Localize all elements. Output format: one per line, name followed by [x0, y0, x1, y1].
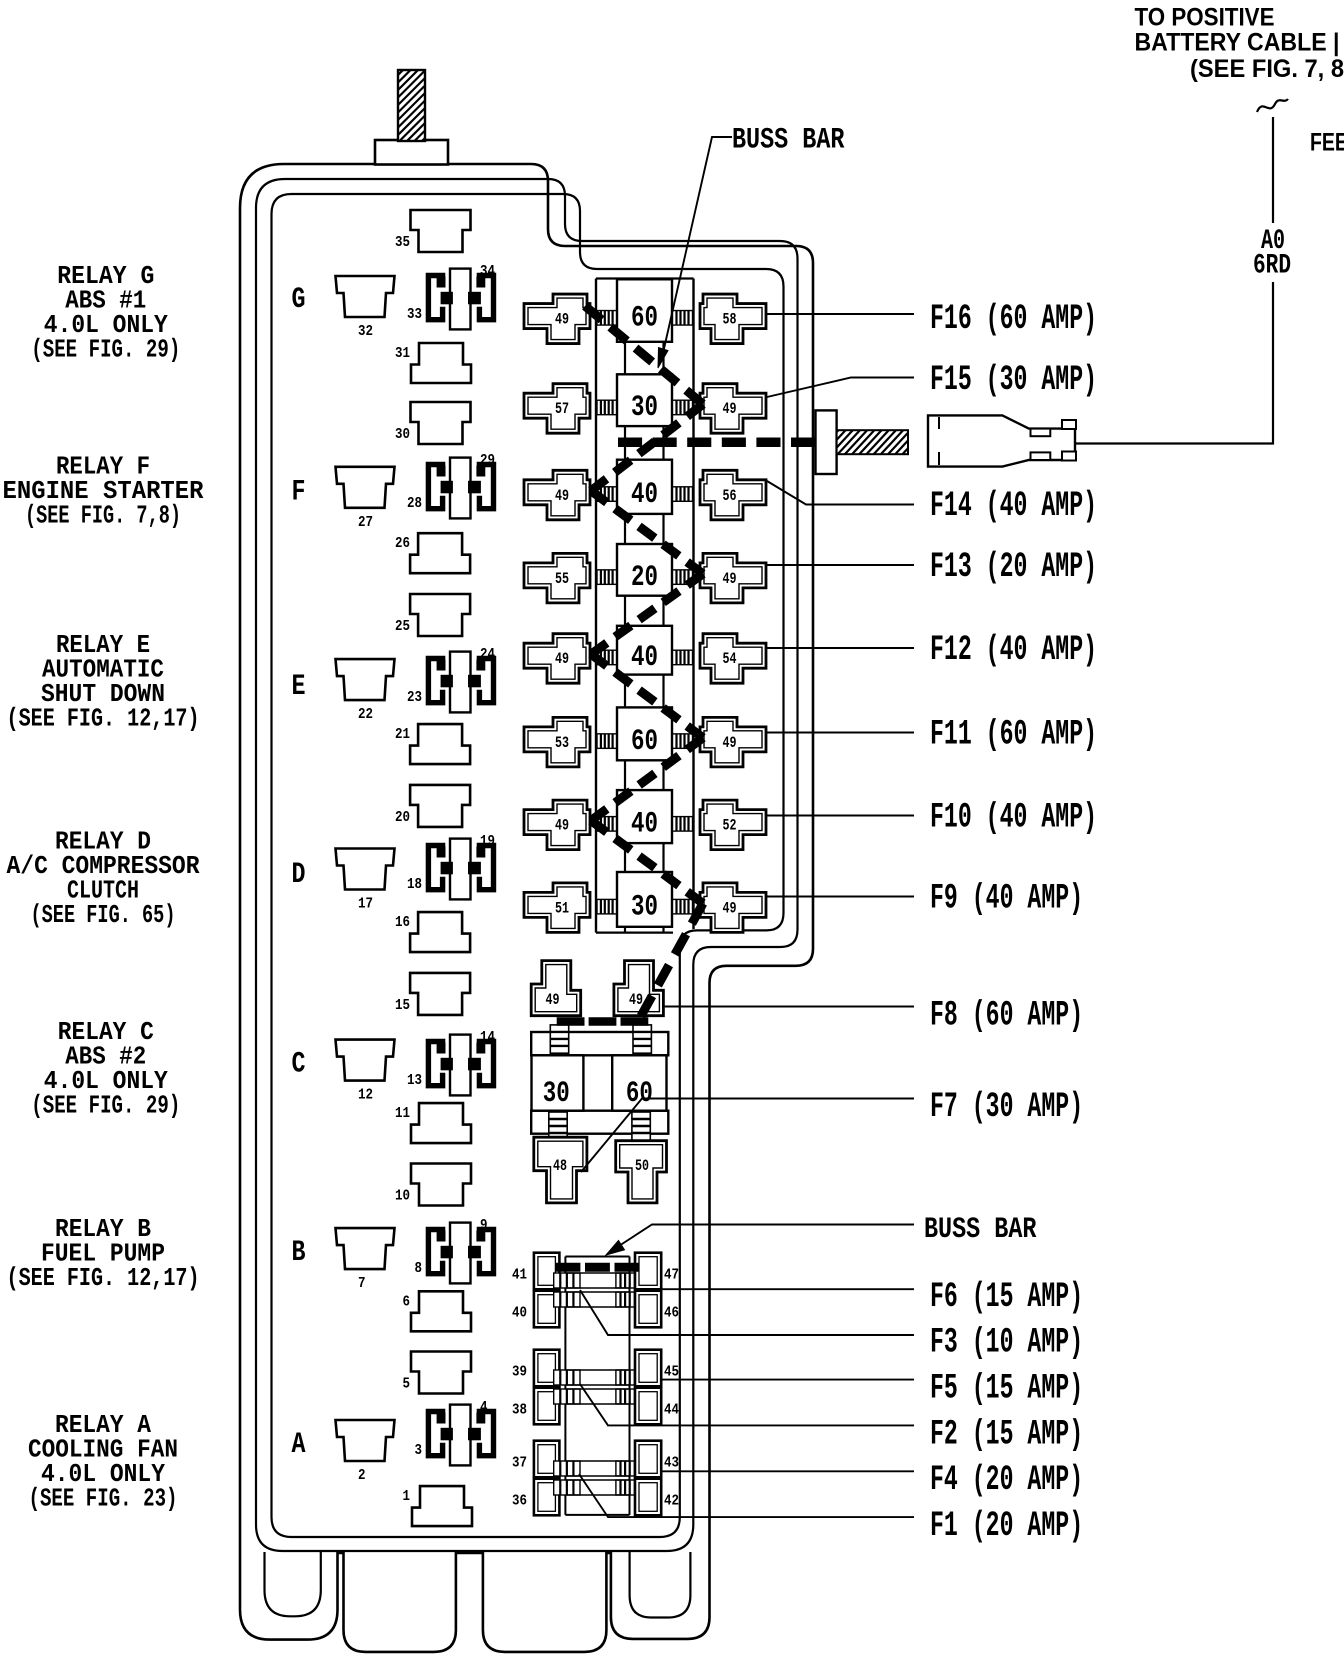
svg-text:40: 40 — [631, 478, 658, 512]
svg-text:F3 (10 AMP): F3 (10 AMP) — [930, 1323, 1083, 1363]
F8 leader line — [663, 1006, 914, 1008]
fuse F14 left crimp — [597, 487, 617, 502]
F11 leader line — [766, 732, 914, 734]
fuse F2 terminals 38/44 — [512, 1388, 679, 1425]
fuse F12 right terminal 54 — [700, 634, 766, 684]
svg-text:26: 26 — [395, 535, 410, 552]
bottom fuse block frame — [565, 1257, 629, 1515]
svg-text:11: 11 — [395, 1105, 410, 1122]
fuse F15 element (30 amp) — [617, 374, 672, 426]
relay G socket (trapezoid terminal 32) — [336, 276, 395, 340]
fuse F8 label — [930, 996, 1083, 1036]
relay B letter — [292, 1236, 306, 1270]
fuse F16 label — [930, 299, 1097, 339]
svg-text:54: 54 — [723, 650, 737, 668]
svg-text:B: B — [292, 1236, 306, 1270]
svg-text:F6 (15 AMP): F6 (15 AMP) — [930, 1277, 1083, 1317]
svg-text:23: 23 — [407, 689, 422, 706]
F15 leader line — [767, 378, 914, 398]
cavity terminal 35 — [395, 210, 471, 252]
svg-text:44: 44 — [664, 1402, 679, 1419]
svg-text:(SEE FIG. 12,17): (SEE FIG. 12,17) — [7, 704, 200, 734]
fuse F10 right crimp — [673, 817, 693, 832]
svg-text:8: 8 — [415, 1260, 423, 1277]
svg-text:45: 45 — [664, 1364, 679, 1381]
fuse F11 left terminal 53 — [524, 717, 590, 767]
cavity terminal 30 — [395, 402, 471, 444]
fuse F11 right terminal 49 — [700, 717, 766, 767]
svg-text:BATTERY CABLE |: BATTERY CABLE | — [1135, 29, 1340, 57]
svg-text:24: 24 — [480, 646, 495, 663]
fuse F10 left terminal 49 — [524, 800, 590, 850]
F13 leader line — [766, 564, 914, 566]
relay C coil terminals (H symbol, pins 13/14) — [407, 1029, 495, 1096]
svg-text:20: 20 — [395, 809, 410, 826]
fuse F7 element (30 amp) — [532, 1055, 584, 1111]
svg-text:(SEE FIG. 12,17): (SEE FIG. 12,17) — [7, 1263, 200, 1293]
F5 leader line — [662, 1379, 915, 1381]
fuse F15 right terminal 49 — [700, 384, 766, 434]
svg-text:TO POSITIVE: TO POSITIVE — [1135, 4, 1275, 32]
fuse F10 label — [930, 797, 1097, 837]
buss bar top label — [732, 124, 845, 158]
F7/F8 block bottom bar — [531, 1111, 668, 1134]
relay A letter — [292, 1428, 306, 1462]
fuse F15 left crimp — [597, 400, 617, 415]
relay C socket (trapezoid terminal 12) — [336, 1040, 395, 1104]
svg-text:36: 36 — [512, 1493, 527, 1510]
fuse F3 label — [930, 1323, 1083, 1363]
fuse F14 left terminal 49 — [524, 470, 590, 520]
svg-text:5: 5 — [403, 1376, 411, 1393]
svg-text:28: 28 — [407, 495, 422, 512]
relay D letter — [292, 858, 306, 892]
svg-text:38: 38 — [512, 1402, 527, 1419]
svg-text:22: 22 — [358, 706, 373, 723]
svg-text:13: 13 — [407, 1072, 422, 1089]
svg-text:F14 (40 AMP): F14 (40 AMP) — [930, 486, 1097, 526]
svg-text:7: 7 — [358, 1275, 366, 1292]
svg-text:27: 27 — [358, 514, 373, 531]
mounting tab 1 inner — [265, 1552, 321, 1616]
relay F letter — [292, 475, 306, 509]
relay C description label — [31, 1017, 180, 1121]
fuse F9 left terminal 51 — [524, 883, 590, 933]
svg-text:16: 16 — [395, 914, 410, 931]
svg-text:49: 49 — [629, 991, 643, 1009]
fuse F13 element (20 amp) — [617, 544, 672, 596]
relay D description label — [7, 827, 200, 931]
fuse F12 label — [930, 630, 1097, 670]
svg-text:34: 34 — [480, 263, 495, 280]
relay A coil terminals (H symbol, pins 3/4) — [415, 1399, 494, 1466]
fuse F13 right crimp — [673, 570, 693, 585]
relay A socket (trapezoid terminal 2) — [336, 1420, 395, 1484]
fuse F15 right crimp — [673, 400, 693, 415]
svg-text:FEED: FEED — [1310, 129, 1344, 157]
svg-text:49: 49 — [555, 487, 569, 505]
fuse F9 element (30 amp) — [617, 872, 672, 927]
svg-text:48: 48 — [553, 1157, 567, 1175]
svg-text:1: 1 — [403, 1488, 411, 1505]
svg-text:40: 40 — [512, 1305, 527, 1322]
svg-text:55: 55 — [555, 570, 569, 588]
svg-text:49: 49 — [723, 734, 737, 752]
relay E coil terminals (H symbol, pins 23/24) — [407, 646, 495, 713]
fuse F13 left crimp — [597, 570, 617, 585]
svg-text:20: 20 — [631, 561, 658, 595]
relay F socket (trapezoid terminal 27) — [336, 467, 395, 531]
relay G coil terminals (H symbol, pins 33/34) — [407, 263, 495, 330]
svg-text:37: 37 — [512, 1455, 527, 1472]
fuse F14 right terminal 56 — [700, 470, 766, 520]
svg-text:40: 40 — [631, 641, 658, 675]
svg-text:41: 41 — [512, 1267, 527, 1284]
fuse F1 terminals 36/42 — [512, 1479, 679, 1516]
cavity terminal 10 — [395, 1164, 471, 1206]
fuse F10 left crimp — [597, 817, 617, 832]
enclosure wall middle line — [256, 179, 798, 1551]
svg-text:12: 12 — [358, 1087, 373, 1104]
svg-text:14: 14 — [480, 1029, 495, 1046]
svg-text:F1 (20 AMP): F1 (20 AMP) — [930, 1506, 1083, 1546]
buss bar bottom label — [924, 1213, 1037, 1247]
svg-text:F10 (40 AMP): F10 (40 AMP) — [930, 797, 1097, 837]
svg-text:33: 33 — [407, 306, 422, 323]
svg-text:(SEE FIG. 23): (SEE FIG. 23) — [29, 1484, 178, 1514]
svg-text:9: 9 — [480, 1217, 488, 1234]
fuse F9 label — [930, 879, 1083, 919]
svg-text:15: 15 — [395, 997, 410, 1014]
cavity terminal 5 — [403, 1352, 472, 1394]
fuse F5 terminals 39/45 — [512, 1350, 679, 1387]
fuse F12 element (40 amp) — [617, 626, 672, 675]
svg-text:6: 6 — [403, 1293, 411, 1310]
cavity terminal 15 — [395, 973, 470, 1015]
relay F description label — [3, 452, 204, 531]
svg-text:30: 30 — [631, 890, 658, 924]
battery cable terminal plug — [928, 415, 1076, 466]
svg-text:F: F — [292, 475, 306, 509]
svg-text:49: 49 — [555, 650, 569, 668]
svg-text:6RD: 6RD — [1253, 251, 1291, 282]
relay D coil terminals (H symbol, pins 18/19) — [407, 833, 495, 900]
fuse F14 element (40 amp) — [617, 460, 672, 514]
svg-text:60: 60 — [631, 302, 658, 336]
svg-text:60: 60 — [626, 1077, 653, 1111]
wire code A0 6RD — [1253, 226, 1291, 282]
F9 leader line — [766, 896, 914, 898]
cavity terminal 25 — [395, 594, 470, 636]
fuse F9 right terminal 49 — [700, 883, 766, 933]
relay A description label — [28, 1410, 178, 1514]
svg-text:2: 2 — [358, 1467, 366, 1484]
F7 leader line — [581, 1099, 914, 1173]
cavity terminal 26 — [395, 533, 470, 573]
svg-text:E: E — [292, 670, 306, 704]
F8 left crimp — [550, 1025, 568, 1053]
svg-text:39: 39 — [512, 1364, 527, 1381]
F8 right crimp — [633, 1025, 651, 1053]
fuse F16 left crimp — [597, 311, 617, 326]
cavity terminal 6 — [403, 1291, 472, 1331]
buss bar bottom label leader — [606, 1225, 914, 1256]
svg-text:43: 43 — [664, 1455, 679, 1472]
svg-text:49: 49 — [555, 817, 569, 835]
F7/F8 block top bar — [531, 1032, 668, 1055]
wall boss for battery stud — [816, 410, 837, 474]
fuse F3 terminals 40/46 — [512, 1291, 679, 1328]
svg-text:49: 49 — [723, 899, 737, 917]
battery feed note — [1135, 4, 1344, 84]
fuse F8 element (60 amp) — [612, 1055, 666, 1111]
F14 leader line — [767, 481, 914, 505]
fuse F16 left terminal 49 — [524, 294, 590, 344]
F7 lower left crimp — [549, 1112, 567, 1140]
fuse column caps and necks — [596, 279, 694, 933]
svg-text:(SEE FIG. 29): (SEE FIG. 29) — [31, 335, 180, 365]
svg-text:29: 29 — [480, 452, 495, 469]
svg-text:49: 49 — [555, 311, 569, 329]
svg-text:21: 21 — [395, 726, 410, 743]
svg-text:10: 10 — [395, 1188, 410, 1205]
svg-text:30: 30 — [631, 391, 658, 425]
relay E description label — [7, 630, 200, 734]
cavity terminal 21 — [395, 724, 470, 764]
svg-text:19: 19 — [480, 833, 495, 850]
fuse F13 label — [930, 547, 1097, 587]
fuse F5 label — [930, 1369, 1083, 1409]
fuse F16 element (60 amp) — [617, 279, 672, 342]
buss bar bottom run (dashed) — [556, 1263, 640, 1272]
fuse F11 label — [930, 714, 1097, 754]
fuse F6 terminals 41/47 — [512, 1253, 679, 1290]
svg-text:F7 (30 AMP): F7 (30 AMP) — [930, 1087, 1083, 1127]
F2 leader line — [580, 1384, 914, 1425]
fuse F8 right terminal 49 — [614, 961, 664, 1016]
svg-text:3: 3 — [415, 1442, 423, 1459]
fuse F13 left terminal 55 — [524, 553, 590, 603]
svg-text:30: 30 — [395, 426, 410, 443]
svg-text:32: 32 — [358, 323, 373, 340]
svg-text:56: 56 — [723, 487, 737, 505]
buss bar feed run (dashed, to battery stud) — [618, 438, 850, 448]
mounting stud (hatched bolt) — [330, 68, 503, 143]
svg-text:(SEE FIG. 7,8): (SEE FIG. 7,8) — [25, 501, 181, 531]
svg-text:52: 52 — [723, 817, 737, 835]
relay G letter — [292, 283, 306, 317]
fuse F14 label — [930, 486, 1097, 526]
fuse F8 left terminal 49 — [531, 961, 581, 1016]
fuse F6 label — [930, 1277, 1083, 1317]
svg-text:51: 51 — [555, 899, 569, 917]
relay E letter — [292, 670, 306, 704]
fuse F7 label — [930, 1087, 1083, 1127]
fuse F16 right crimp — [673, 311, 693, 326]
cavity terminal 31 — [395, 343, 471, 383]
svg-text:F2 (15 AMP): F2 (15 AMP) — [930, 1414, 1083, 1454]
cavity terminal 1 — [403, 1486, 473, 1526]
svg-text:C: C — [292, 1048, 306, 1082]
mounting stud base — [375, 140, 448, 165]
battery stud (hatched) — [800, 428, 934, 456]
relay E socket (trapezoid terminal 22) — [336, 659, 395, 723]
svg-text:F12 (40 AMP): F12 (40 AMP) — [930, 630, 1097, 670]
fuse F12 right crimp — [673, 650, 693, 665]
svg-text:30: 30 — [543, 1077, 570, 1111]
enclosure wall inner line — [272, 194, 784, 1537]
cavity terminal 11 — [395, 1103, 471, 1143]
enclosure wall outer line — [240, 164, 813, 1652]
F1 leader line — [579, 1474, 914, 1517]
svg-text:49: 49 — [723, 570, 737, 588]
svg-text:60: 60 — [631, 725, 658, 759]
fuse F10 right terminal 52 — [700, 800, 766, 850]
cavity terminal 16 — [395, 912, 470, 952]
svg-text:31: 31 — [395, 345, 410, 362]
F12 leader line — [766, 647, 914, 649]
fuse F9 right crimp — [673, 899, 693, 914]
svg-text:F11 (60 AMP): F11 (60 AMP) — [930, 714, 1097, 754]
fuse F11 element (60 amp) — [617, 707, 672, 760]
cavity terminal 20 — [395, 785, 470, 827]
svg-text:F15 (30 AMP): F15 (30 AMP) — [930, 360, 1097, 400]
F3 leader line — [580, 1290, 914, 1335]
svg-text:58: 58 — [723, 311, 737, 329]
svg-text:F4 (20 AMP): F4 (20 AMP) — [930, 1460, 1083, 1500]
svg-text:35: 35 — [395, 234, 410, 251]
svg-text:18: 18 — [407, 876, 422, 893]
svg-text:F9 (40 AMP): F9 (40 AMP) — [930, 879, 1083, 919]
fuse F15 label — [930, 360, 1097, 400]
svg-text:D: D — [292, 858, 306, 892]
relay B coil terminals (H symbol, pins 8/9) — [415, 1217, 494, 1284]
svg-text:40: 40 — [631, 808, 658, 842]
svg-text:49: 49 — [546, 991, 560, 1009]
F7 lower right crimp — [632, 1112, 650, 1140]
svg-text:(SEE FIG. 29): (SEE FIG. 29) — [31, 1091, 180, 1121]
F10 leader line — [766, 815, 914, 817]
fuse F11 left crimp — [597, 734, 617, 749]
F4 leader line — [662, 1470, 915, 1472]
relay B description label — [7, 1214, 200, 1293]
svg-text:25: 25 — [395, 618, 410, 635]
fuse F13 right terminal 49 — [700, 553, 766, 603]
fuse F2 label — [930, 1414, 1083, 1454]
svg-text:53: 53 — [555, 734, 569, 752]
svg-text:4: 4 — [480, 1399, 488, 1416]
fuse F1 label — [930, 1506, 1083, 1546]
buss bar F8 run (dashed) — [557, 1017, 649, 1026]
feed wire to battery — [1075, 117, 1273, 444]
svg-text:F16 (60 AMP): F16 (60 AMP) — [930, 299, 1097, 339]
svg-text:F13 (20 AMP): F13 (20 AMP) — [930, 547, 1097, 587]
fuse F9 left crimp — [597, 899, 617, 914]
wire break symbol — [1257, 99, 1288, 112]
svg-text:(SEE FIG. 65): (SEE FIG. 65) — [31, 900, 176, 930]
svg-text:BUSS BAR: BUSS BAR — [732, 124, 845, 158]
fuse F12 left crimp — [597, 650, 617, 665]
relay D socket (trapezoid terminal 17) — [336, 849, 395, 913]
fuse F4 label — [930, 1460, 1083, 1500]
svg-text:47: 47 — [664, 1267, 679, 1284]
svg-text:50: 50 — [635, 1157, 649, 1175]
buss bar zigzag (dashed) — [585, 306, 703, 1016]
relay G description label — [31, 261, 180, 365]
fuse F10 element (40 amp) — [617, 790, 672, 843]
fuse F11 right crimp — [673, 734, 693, 749]
F16 leader line — [766, 313, 914, 315]
svg-text:49: 49 — [723, 400, 737, 418]
svg-text:BUSS BAR: BUSS BAR — [924, 1213, 1037, 1247]
fuse column right outer rail — [692, 279, 694, 930]
svg-text:17: 17 — [358, 896, 373, 913]
svg-text:F8 (60 AMP): F8 (60 AMP) — [930, 996, 1083, 1036]
svg-text:F5 (15 AMP): F5 (15 AMP) — [930, 1369, 1083, 1409]
fuse F16 right terminal 58 — [700, 294, 766, 344]
svg-text:46: 46 — [664, 1305, 679, 1322]
svg-text:(SEE FIG. 7, 8: (SEE FIG. 7, 8 — [1190, 55, 1344, 83]
svg-text:57: 57 — [555, 400, 569, 418]
svg-text:A: A — [292, 1428, 306, 1462]
fuse column left outer rail — [595, 279, 597, 933]
fuse F15 left terminal 57 — [524, 384, 590, 434]
relay B socket (trapezoid terminal 7) — [336, 1228, 395, 1292]
fuse F12 left terminal 49 — [524, 634, 590, 684]
fuse F14 right crimp — [673, 487, 693, 502]
svg-text:42: 42 — [664, 1493, 679, 1510]
terminal 48 — [534, 1137, 587, 1203]
relay F coil terminals (H symbol, pins 28/29) — [407, 452, 495, 519]
buss bar top label leader — [658, 137, 732, 368]
relay C letter — [292, 1048, 306, 1082]
F6 leader line — [662, 1288, 915, 1290]
mounting tab right inner — [630, 1552, 691, 1618]
terminal 50 — [616, 1141, 667, 1203]
svg-text:G: G — [292, 283, 306, 317]
feed label — [1310, 129, 1344, 157]
fuse F4 terminals 37/43 — [512, 1441, 679, 1478]
